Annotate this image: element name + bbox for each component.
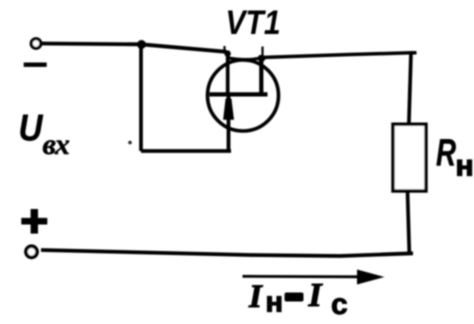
terminal input minus xyxy=(31,39,41,49)
speck artifact xyxy=(128,141,132,145)
svg-text:н: н xyxy=(456,150,474,183)
transistor VT1 source overshoot tick xyxy=(223,46,225,51)
plus sign xyxy=(21,218,47,225)
minus sign xyxy=(24,63,47,67)
transistor VT1 source lead xyxy=(226,51,230,96)
equals sign xyxy=(285,293,304,302)
transistor VT1 gate lead with arrow xyxy=(227,95,231,151)
resistor Rn xyxy=(393,124,426,191)
wire top left xyxy=(41,44,227,52)
node source corner blob xyxy=(224,51,230,57)
svg-text:с: с xyxy=(331,288,348,321)
transistor VT1 drain overshoot tick xyxy=(261,47,263,57)
current arrow In=Ic xyxy=(243,275,363,278)
svg-text:н: н xyxy=(266,287,284,319)
wire gate loop left vertical xyxy=(139,45,143,152)
terminal input plus xyxy=(26,246,37,257)
svg-text:I: I xyxy=(248,279,263,315)
node drain corner blob xyxy=(258,55,266,62)
transistor VT1 channel bar xyxy=(210,92,268,96)
svg-text:R: R xyxy=(436,133,456,175)
transistor VT1 gate arrowhead xyxy=(223,99,234,120)
wire top right xyxy=(261,53,417,58)
wire gate loop bottom xyxy=(141,149,231,153)
wire right vertical upper xyxy=(409,53,411,126)
transistor VT1 flattened top arc xyxy=(228,58,262,60)
transistor VT1 drain lead xyxy=(259,55,263,95)
transistor VT1 body circle xyxy=(208,60,279,131)
svg-text:I: I xyxy=(308,277,324,314)
node junction gate tie xyxy=(137,40,146,49)
wire bottom xyxy=(41,250,413,256)
svg-text:U: U xyxy=(19,108,44,149)
wire right vertical lower xyxy=(408,191,410,253)
svg-text:вх: вх xyxy=(43,128,70,161)
svg-text:VT1: VT1 xyxy=(226,4,281,42)
